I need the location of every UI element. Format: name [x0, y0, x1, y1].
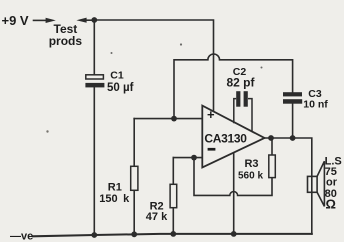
node C junction dot (- input / feedback): [191, 155, 197, 161]
capacitor C1 top plate: [86, 75, 104, 79]
junction dot pin 4 at -ve rail: [231, 231, 237, 237]
wire non-inverting input to node B: [134, 118, 202, 120]
svg-text:prods: prods: [49, 34, 83, 48]
wire probe lead from +9V label: [34, 19, 48, 21]
svg-text:10 nf: 10 nf: [303, 98, 328, 110]
node D junction dot (output / R3): [268, 135, 274, 141]
scan speck 3: [261, 67, 263, 69]
wire C3 bottom lead to output node D: [292, 104, 294, 138]
wire R3 top lead to output: [271, 138, 273, 155]
svg-text:47 k: 47 k: [146, 211, 168, 223]
capacitor C2 right plate: [244, 91, 248, 107]
wire output of U1 to loudspeaker: [265, 138, 312, 234]
node E junction dot (output / C3): [290, 135, 296, 141]
svg-text:CA3130: CA3130: [204, 132, 247, 146]
wire R2 bottom lead to -ve rail: [172, 208, 174, 234]
wire R1 top lead: [133, 119, 135, 167]
junction dot C1 at -ve rail: [91, 232, 97, 238]
capacitor C3 bottom plate: [283, 99, 302, 104]
wire pin 4 of U1 to -ve rail: [233, 152, 235, 234]
wire node B up and over to C3 (hop over pin-7 wire): [174, 54, 293, 119]
svg-text:or: or: [326, 176, 338, 188]
wire R1 bottom lead to -ve rail: [133, 190, 135, 234]
scan speck 2: [180, 43, 182, 45]
svg-text:Ω: Ω: [326, 197, 336, 212]
wire +9V top rail to pin 7 of U1: [94, 20, 213, 111]
loudspeaker LS driver rectangle: [308, 176, 318, 192]
svg-text:R3: R3: [244, 158, 258, 170]
svg-text:C1: C1: [110, 70, 124, 82]
svg-text:R1: R1: [108, 181, 122, 193]
capacitor C3 top plate: [283, 92, 302, 96]
node A junction dot (top rail / C1 / probe): [91, 17, 97, 23]
probe arrow left (to node A): [76, 18, 86, 23]
svg-text:150 k: 150 k: [99, 193, 130, 205]
capacitor C1 bottom plate: [85, 83, 104, 88]
capacitor C2 left lead (pin 1): [234, 99, 236, 124]
wire -ve bottom rail: [33, 234, 312, 236]
loudspeaker LS cone: [317, 161, 324, 206]
junction dot R2 at -ve rail: [170, 231, 176, 237]
node B junction dot (+ input / bootstrap wire): [171, 116, 177, 122]
scan speck 4: [46, 130, 48, 132]
op-amp minus input symbol: [208, 148, 216, 151]
wire R2 top lead: [172, 158, 174, 185]
wire probe lead into node A: [84, 19, 94, 21]
resistor R1: [131, 166, 138, 190]
wire feedback from node C down and right to R3 (hop over pin-4 wire): [194, 158, 272, 196]
capacitor C2 left plate: [236, 91, 240, 107]
op-amp U1 CA3130 triangle: [202, 106, 264, 168]
resistor R2: [170, 184, 177, 207]
svg-text:560 k: 560 k: [238, 171, 263, 182]
resistor R3: [269, 155, 276, 178]
svg-text:50 µf: 50 µf: [107, 82, 134, 94]
junction dot R1 at -ve rail: [131, 231, 137, 237]
wire C1 top lead: [93, 20, 95, 75]
svg-text:82 pf: 82 pf: [226, 75, 255, 89]
wire C1 bottom lead to -ve rail: [93, 87, 95, 235]
capacitor C2 right lead (pin 8): [248, 99, 252, 132]
svg-text:—ve: —ve: [10, 231, 33, 242]
probe arrow right (from +9V): [46, 18, 56, 23]
scan speck 1: [111, 52, 113, 54]
svg-text:+: +: [207, 107, 215, 122]
svg-text:+9 V: +9 V: [2, 13, 29, 28]
wire inverting input stub: [173, 157, 202, 159]
